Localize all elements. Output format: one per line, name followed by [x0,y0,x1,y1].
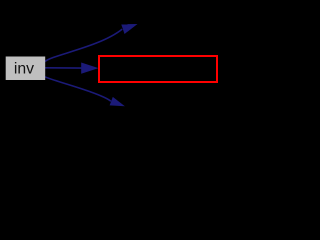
node inv (gray box) [6,57,46,81]
node: red truncated box [99,56,217,82]
wire: edge inv -> bottom node [45,77,111,101]
arrowhead of bottom edge [110,97,125,106]
svg-text:inv: inv [14,61,34,78]
arrowhead of middle edge [81,63,98,74]
arrowhead of top edge [121,24,137,34]
wire: edge inv -> red node [45,67,83,69]
wire: edge inv -> top node [45,29,122,61]
